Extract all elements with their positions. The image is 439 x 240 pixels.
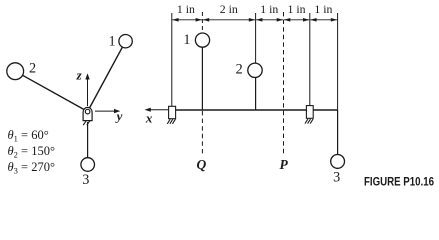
svg-text:1 in: 1 in (287, 2, 305, 16)
extension line L0 (171, 13, 173, 106)
svg-text:1 in: 1 in (260, 2, 278, 16)
dim label 1 in (287, 2, 305, 16)
hanger rod ball R2 to bar (255, 77, 257, 110)
svg-text:θ1 = 60°: θ1 = 60° (8, 128, 49, 144)
label 3 (82, 172, 89, 188)
z axis label (76, 67, 83, 82)
main bar (176, 109, 338, 111)
dimension line seg 2 with arrows (203, 18, 255, 22)
label R2 (236, 62, 243, 78)
svg-text:1: 1 (108, 34, 115, 50)
svg-text:1 in: 1 in (177, 2, 195, 16)
dim label 1 in (314, 2, 332, 16)
dim label 1 in (177, 2, 195, 16)
ball R1 (195, 33, 209, 47)
dim label 2 in (220, 2, 238, 16)
svg-text:z: z (76, 67, 83, 82)
label R3 (333, 170, 340, 186)
Q label (197, 157, 207, 172)
svg-text:P: P (279, 157, 288, 172)
x axis label (145, 110, 153, 125)
right support (306, 106, 313, 119)
extension line L3 / P dashed line (283, 12, 285, 154)
extension line L5 (337, 13, 339, 110)
arm 2 (link at 150°) (15, 71, 87, 111)
z axis arrow (85, 73, 89, 106)
svg-text:2: 2 (29, 60, 36, 76)
theta equations (8, 128, 55, 176)
label R1 (183, 32, 190, 48)
dimension line seg 3 with arrows (256, 18, 283, 22)
x axis arrow (145, 108, 169, 112)
svg-text:2: 2 (236, 62, 243, 78)
svg-text:Q: Q (197, 157, 207, 172)
dimension line seg 5 with arrows (310, 18, 337, 22)
hanger rod above ball R1 to bar (201, 47, 203, 110)
y axis arrow (95, 109, 120, 113)
figure caption (364, 175, 434, 189)
label 2 (29, 60, 36, 76)
ball 3 (81, 158, 95, 172)
svg-text:3: 3 (333, 170, 340, 186)
svg-text:y: y (115, 108, 123, 123)
svg-text:3: 3 (82, 172, 89, 188)
arm 3 (link at 270°) (87, 122, 89, 165)
dimension line seg 1 with arrows (172, 18, 202, 22)
dimension line seg 4 with arrows (284, 18, 309, 22)
right support hatching (305, 119, 313, 124)
ball 1 (119, 35, 132, 48)
pivot bracket (hub) (83, 107, 92, 120)
dim label 1 in (260, 2, 278, 16)
left support hatching (167, 119, 175, 124)
drop rod to ball R3 (337, 110, 339, 155)
svg-text:θ2 = 150°: θ2 = 150° (8, 144, 55, 160)
P label (279, 157, 288, 172)
svg-text:1 in: 1 in (314, 2, 332, 16)
ball R2 (248, 63, 262, 77)
svg-text:1: 1 (183, 32, 190, 48)
extension line L1 top (dashed through dim line) (201, 12, 203, 33)
svg-text:2 in: 2 in (220, 2, 238, 16)
extension line L2 (255, 13, 257, 63)
svg-text:θ3 = 270°: θ3 = 270° (8, 160, 55, 176)
label 1 (108, 34, 115, 50)
Q dashed line below bar (201, 111, 203, 154)
ball R3 (331, 155, 345, 169)
left support (169, 106, 176, 118)
y axis label (115, 108, 123, 123)
extension line L4 (309, 13, 311, 106)
arm 1 (link at 60°) (88, 41, 126, 111)
ball 2 (7, 63, 24, 80)
svg-text:FIGURE P10.16: FIGURE P10.16 (364, 175, 434, 189)
hub ground hatching (83, 121, 90, 125)
svg-text:x: x (145, 110, 153, 125)
